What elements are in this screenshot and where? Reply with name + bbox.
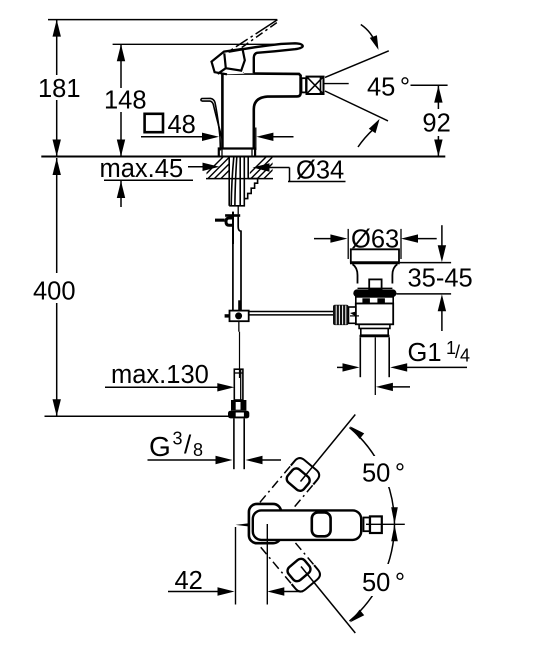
horizontal pop-up linkage rod bbox=[249, 311, 333, 313]
deck hatching left bbox=[200, 157, 243, 180]
dimension 92 vertical bbox=[437, 85, 439, 156]
body square top view bbox=[249, 504, 281, 543]
handle knuckle facet lines bbox=[212, 49, 245, 74]
dimension Ø63 bbox=[314, 238, 341, 240]
knurled side knob bbox=[333, 305, 349, 325]
dimension 400 vertical bbox=[56, 158, 58, 416]
dimension 35-45 bbox=[400, 262, 451, 264]
handle lever fill bbox=[229, 43, 303, 73]
G3/8 hose end fitting bbox=[234, 369, 243, 400]
centerline right of aerator bbox=[366, 523, 405, 525]
svg-text:42: 42 bbox=[175, 567, 203, 595]
handle knuckle fill bbox=[212, 49, 245, 74]
swivel diagonal lower bbox=[301, 567, 355, 634]
drain seal ring bbox=[353, 289, 396, 297]
drain stem boss bbox=[369, 279, 381, 289]
faucet body side view bbox=[219, 74, 301, 157]
ghost handle rotated down (dash-dot) bbox=[261, 528, 323, 594]
dimension G3/8 line bbox=[148, 459, 227, 461]
ghost handle rotated up (dash-dot) bbox=[260, 456, 322, 522]
svg-text:181: 181 bbox=[38, 75, 81, 103]
aerator neck top view bbox=[364, 518, 370, 532]
svg-text:148: 148 bbox=[104, 87, 147, 115]
svg-text:50°: 50° bbox=[362, 569, 405, 597]
aerator on spout bbox=[302, 77, 324, 94]
svg-text:G1: G1 bbox=[408, 339, 442, 367]
svg-text:3: 3 bbox=[173, 429, 183, 449]
aerator box top view bbox=[370, 516, 382, 533]
svg-text:8: 8 bbox=[193, 440, 203, 460]
aerator tilt fan line upper bbox=[325, 51, 389, 78]
top reference line (max height 181) bbox=[48, 19, 277, 21]
spout centerline stub bbox=[324, 83, 349, 85]
svg-text:50°: 50° bbox=[362, 460, 405, 488]
center mark vertical bbox=[266, 524, 268, 605]
back pin top view bbox=[236, 523, 249, 526]
label Ø34 with bent leader bbox=[289, 168, 291, 182]
hole dim arrows at deck (Ø34 / max.45 leader) bbox=[188, 166, 213, 168]
swivel arc upper with arrows bbox=[350, 428, 395, 525]
dimension max.130 line bbox=[105, 386, 228, 388]
svg-text:max.45: max.45 bbox=[100, 155, 184, 183]
svg-text:/: / bbox=[184, 430, 192, 460]
deck / counter line bbox=[41, 156, 445, 158]
supply hose tail bbox=[233, 418, 235, 469]
pop-up rod pivot block bbox=[238, 300, 241, 310]
dimension max.45 arrow below deck bbox=[120, 181, 122, 207]
lever top view bbox=[253, 510, 361, 540]
deck hatching right bbox=[243, 157, 286, 180]
knob collar bbox=[349, 307, 356, 323]
dimension 42 bbox=[235, 527, 237, 605]
svg-text:4: 4 bbox=[460, 346, 470, 366]
non-return valve on rod bbox=[225, 214, 240, 217]
deck bottom line bbox=[104, 179, 193, 181]
swivel diagonal upper bbox=[301, 415, 356, 482]
dimension 181 vertical bbox=[56, 20, 58, 157]
dimension G1 1/4 line bbox=[337, 366, 353, 368]
svg-text:max.130: max.130 bbox=[111, 361, 209, 389]
supply hose below valve bbox=[232, 244, 234, 311]
faucet base plate bbox=[219, 149, 255, 157]
svg-text:45°: 45° bbox=[367, 74, 410, 102]
drain neck bbox=[353, 264, 358, 283]
svg-text:35-45: 35-45 bbox=[408, 265, 473, 293]
lever hole top view bbox=[312, 512, 331, 536]
dimension 48 line bbox=[141, 136, 212, 138]
pop-up rod thin link bbox=[237, 206, 239, 215]
dimension 148 vertical bbox=[120, 44, 122, 156]
handle lever outline bbox=[229, 43, 303, 73]
label square 48 bbox=[145, 114, 163, 132]
mounting nut steps bbox=[229, 179, 257, 206]
svg-text:G: G bbox=[149, 431, 171, 462]
svg-text:48: 48 bbox=[168, 111, 196, 139]
drain upper body with notches bbox=[356, 297, 393, 304]
bottom reference line (400) bbox=[45, 415, 249, 417]
tilt arc arrow lower bbox=[358, 130, 373, 147]
rod lower thin link bbox=[239, 332, 241, 378]
tilt arc arrow upper bbox=[361, 25, 377, 46]
drain plug head bbox=[351, 249, 399, 262]
svg-text:400: 400 bbox=[33, 277, 76, 305]
faucet shank below deck bbox=[229, 157, 257, 206]
svg-text:92: 92 bbox=[422, 110, 450, 138]
aerator tilt fan line lower bbox=[325, 91, 388, 121]
drain tailpipe bbox=[359, 337, 361, 377]
handle reference line (148) bbox=[113, 43, 287, 45]
svg-text:Ø34: Ø34 bbox=[296, 156, 344, 184]
drain main body bbox=[356, 304, 393, 325]
phantom raised lever (dash-dot) bbox=[228, 20, 278, 55]
drain body steps bbox=[359, 324, 390, 328]
pop-up rod at back of faucet bbox=[201, 98, 221, 150]
swivel arc lower with arrows bbox=[350, 524, 395, 621]
